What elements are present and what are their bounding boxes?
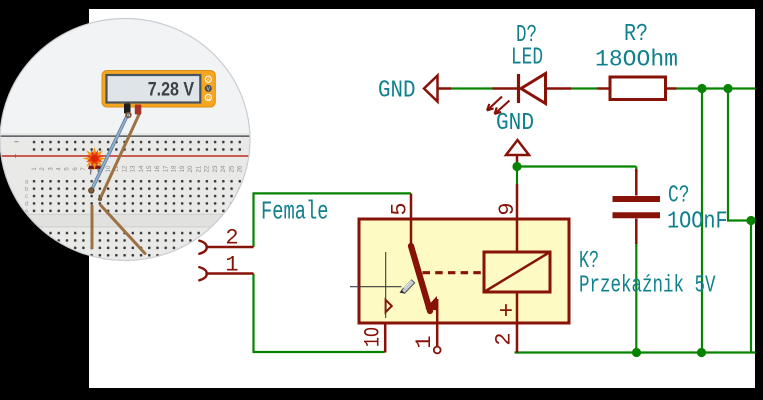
svg-text:1O: 1O [360, 327, 385, 347]
svg-text:−: − [14, 138, 19, 147]
svg-text:19: 19 [180, 165, 186, 172]
svg-text:+: + [499, 299, 513, 326]
svg-text:23: 23 [213, 165, 219, 172]
svg-text:15: 15 [147, 165, 153, 172]
svg-text:1OOnF: 1OOnF [667, 209, 728, 236]
svg-text:1: 1 [225, 253, 238, 278]
svg-text:14: 14 [139, 165, 145, 172]
svg-text:21: 21 [196, 165, 202, 172]
svg-text:22: 22 [205, 165, 211, 172]
svg-text:+: + [13, 152, 18, 161]
svg-text:Przekaźnik 5V: Przekaźnik 5V [579, 273, 716, 300]
svg-text:17: 17 [164, 165, 170, 172]
svg-text:7.28 V: 7.28 V [148, 78, 194, 100]
svg-text:LED: LED [511, 45, 543, 72]
svg-text:16: 16 [155, 165, 161, 172]
svg-text:1: 1 [412, 335, 437, 348]
svg-text:20: 20 [188, 165, 194, 172]
svg-text:12: 12 [122, 165, 128, 172]
svg-text:c: c [25, 194, 28, 200]
svg-text:GND: GND [378, 78, 416, 105]
svg-text:R?: R? [624, 21, 648, 48]
svg-text:Ω: Ω [207, 95, 211, 100]
svg-text:5: 5 [388, 202, 413, 215]
svg-text:2: 2 [225, 226, 238, 251]
svg-text:GND: GND [496, 110, 534, 137]
svg-text:10: 10 [106, 165, 112, 172]
svg-text:18: 18 [172, 165, 178, 172]
svg-text:C?: C? [668, 183, 690, 210]
svg-text:Female: Female [261, 197, 329, 227]
svg-text:9: 9 [495, 202, 520, 215]
svg-text:K?: K? [579, 248, 599, 275]
svg-text:26: 26 [238, 165, 244, 172]
svg-text:d: d [25, 202, 28, 208]
svg-text:25: 25 [229, 165, 235, 172]
svg-text:24: 24 [221, 165, 227, 172]
svg-text:18OOhm: 18OOhm [595, 47, 678, 73]
svg-text:13: 13 [131, 165, 137, 172]
svg-text:2: 2 [492, 332, 517, 345]
